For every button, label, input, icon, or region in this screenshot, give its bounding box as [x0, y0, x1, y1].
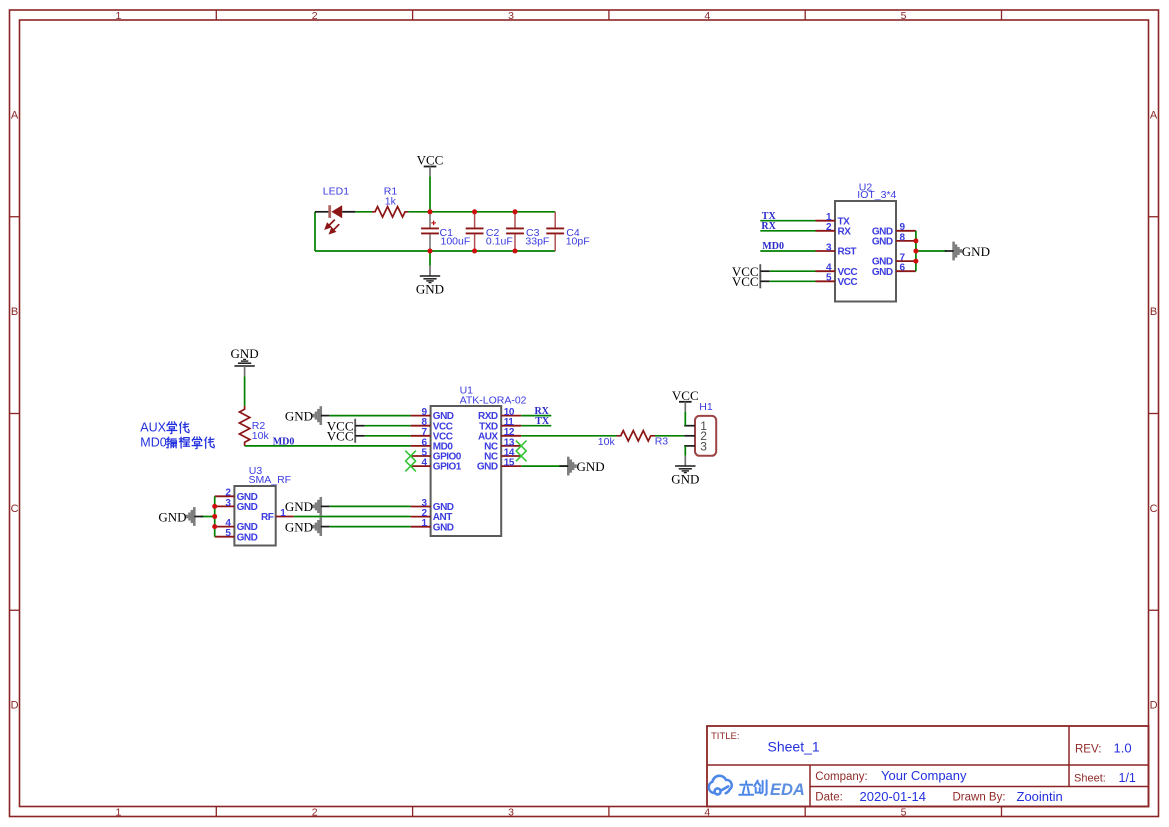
- svg-text:GPIO1: GPIO1: [433, 462, 462, 473]
- wire: U1 pin10 RX stub: [521, 415, 551, 417]
- H1 pin 3: [684, 445, 695, 447]
- ground flag at U1 pin9: [320, 406, 323, 425]
- U1 pin 8 VCC: [411, 425, 431, 427]
- svg-text:2: 2: [312, 10, 318, 22]
- resistor R2: [239, 406, 249, 446]
- wire: to GND flag: [916, 250, 947, 252]
- U3 pin 5 GND: [215, 536, 235, 538]
- svg-text:VCC: VCC: [672, 388, 699, 403]
- svg-text:GND: GND: [285, 408, 313, 423]
- svg-text:AUX: AUX: [140, 421, 166, 435]
- capacitor C1: [429, 212, 431, 228]
- svg-text:ATK-LORA-02: ATK-LORA-02: [460, 394, 527, 406]
- svg-text:B: B: [1150, 306, 1157, 318]
- svg-text:1: 1: [115, 10, 121, 22]
- frame column numbers: [115, 10, 906, 818]
- U2 pin 9 GND: [896, 230, 916, 232]
- U2 pin 6 GND: [896, 270, 916, 272]
- svg-text:C: C: [11, 503, 19, 515]
- ground above R2: [234, 365, 254, 367]
- U2 pin 1 TX: [816, 220, 836, 222]
- svg-text:Your Company: Your Company: [881, 768, 967, 783]
- ground flag right of U2: [952, 242, 955, 261]
- svg-text:5: 5: [901, 10, 907, 22]
- svg-text:GND: GND: [416, 282, 444, 297]
- ground flag at U1 pin15: [567, 457, 570, 476]
- connector U3 body: [234, 486, 275, 546]
- U1 pin 3 GND: [411, 506, 431, 508]
- junction dots U3 bus: [212, 504, 217, 509]
- svg-text:5: 5: [901, 806, 907, 818]
- wire: H1 pin3 to GND: [684, 446, 686, 456]
- capacitor C4: [554, 212, 556, 228]
- junction dots top net: [428, 209, 433, 214]
- svg-text:VCC: VCC: [327, 429, 354, 444]
- wire: U1 pin15 to GND: [521, 465, 568, 467]
- svg-text:GND: GND: [433, 522, 454, 533]
- svg-text:IOT_3*4: IOT_3*4: [857, 189, 896, 201]
- svg-text:GND: GND: [237, 532, 258, 543]
- U1 pin 4 GPIO1: [411, 465, 431, 467]
- ground below H1: [675, 465, 695, 467]
- wire: bus to GND flag: [201, 516, 215, 518]
- U2 pin 7 GND: [896, 260, 916, 262]
- wire: AUX net U1 pin12 to R3: [521, 435, 616, 437]
- svg-text:SMA_RF: SMA_RF: [249, 474, 292, 486]
- U2 pin 5 VCC: [816, 280, 836, 282]
- svg-text:Zoointin: Zoointin: [1017, 789, 1063, 804]
- C1 polarity plus: [431, 222, 436, 224]
- svg-text:GND: GND: [577, 459, 605, 474]
- svg-text:10k: 10k: [252, 430, 270, 442]
- no-connect cross U1 pin5: [405, 451, 416, 462]
- U1 pin 14 NC: [501, 455, 521, 457]
- svg-text:EDA: EDA: [770, 781, 805, 799]
- svg-text:H1: H1: [699, 401, 713, 413]
- U2 pin 3 RST: [816, 250, 836, 252]
- power VCC U1 pin8: [354, 419, 356, 433]
- connector U2 body: [835, 201, 896, 302]
- U1 pin 9 GND: [411, 415, 431, 417]
- svg-text:MD0: MD0: [140, 436, 166, 450]
- wire: pin9 to GND: [330, 415, 411, 417]
- wire: U3 left GND bus: [214, 496, 216, 536]
- svg-text:2: 2: [312, 806, 318, 818]
- svg-text:GND: GND: [671, 472, 699, 487]
- svg-text:VCC: VCC: [838, 277, 858, 288]
- svg-text:MD0: MD0: [273, 437, 295, 448]
- capacitor C3: [514, 212, 516, 228]
- power VCC U1 pin7: [354, 429, 356, 443]
- svg-text:1: 1: [115, 806, 121, 818]
- wire: U1 pin11 TX stub: [521, 425, 551, 427]
- U1 pin 12 AUX: [501, 435, 521, 437]
- svg-text:15: 15: [504, 458, 515, 469]
- power VCC U2 pin5: [759, 274, 761, 288]
- svg-text:D: D: [1150, 700, 1158, 712]
- wire: RF to U1 ANT: [294, 516, 411, 518]
- U1 pin 10 RXD: [501, 415, 521, 417]
- H1 pin 2: [684, 435, 695, 437]
- svg-text:RF: RF: [261, 512, 274, 523]
- frame row letters: [11, 109, 1158, 711]
- U3 pin 1 RF: [276, 516, 294, 518]
- no-connect cross U1 pin13: [516, 441, 527, 452]
- svg-text:A: A: [11, 109, 19, 121]
- svg-text:3: 3: [508, 10, 514, 22]
- ground flag at U1 pin3: [320, 497, 323, 516]
- LED LED1: [315, 211, 330, 213]
- svg-text:GND: GND: [285, 519, 313, 534]
- svg-text:1/1: 1/1: [1119, 771, 1136, 785]
- svg-text:VCC: VCC: [732, 274, 759, 289]
- wire: VCC to H1 pin1: [684, 412, 686, 426]
- LCEDA logo li glyph: [739, 781, 753, 795]
- svg-text:TITLE:: TITLE:: [711, 731, 740, 742]
- svg-text:Sheet_1: Sheet_1: [768, 739, 820, 755]
- no-connect cross U1 pin4: [405, 461, 416, 472]
- wire: R2 top stub: [244, 366, 246, 376]
- svg-text:10pF: 10pF: [566, 236, 590, 248]
- title block grid: [707, 726, 1149, 807]
- junction dots bottom net: [428, 249, 433, 254]
- ground flag left of U3: [193, 507, 196, 526]
- net label MD0: [760, 250, 815, 252]
- wire: top net from LED to C4: [355, 211, 372, 213]
- U2 pin 2 RX: [816, 230, 836, 232]
- capacitor C2: [474, 212, 476, 228]
- svg-text:C: C: [1150, 503, 1158, 515]
- svg-text:GND: GND: [872, 237, 893, 248]
- svg-text:GND: GND: [872, 267, 893, 278]
- wire: to U1 pin1: [330, 526, 411, 528]
- wire: GND stub: [429, 251, 431, 266]
- U3 pin 4 GND: [215, 526, 235, 528]
- ground below C1: [420, 275, 440, 277]
- wire: U2 right GND bus: [915, 231, 917, 271]
- svg-text:Sheet:: Sheet:: [1074, 773, 1106, 785]
- wire: VCC stub down: [429, 176, 431, 212]
- net label TX: [760, 220, 815, 222]
- U1 pin 2 ANT: [411, 516, 431, 518]
- LCEDA logo chuang glyph: [754, 780, 766, 794]
- svg-text:Company:: Company:: [815, 771, 867, 783]
- resistor R1: [372, 207, 408, 217]
- svg-text:RX: RX: [761, 221, 776, 232]
- svg-text:GND: GND: [285, 499, 313, 514]
- svg-text:0.1uF: 0.1uF: [486, 236, 513, 248]
- svg-text:100uF: 100uF: [441, 236, 471, 248]
- svg-text:RST: RST: [838, 247, 857, 258]
- resistor R3: [617, 431, 656, 441]
- wire: bottom return net: [315, 250, 555, 252]
- svg-text:GND: GND: [237, 502, 258, 513]
- junction dots U2 bus: [913, 238, 918, 243]
- svg-text:LED1: LED1: [323, 185, 349, 197]
- U1 pin 11 TXD: [501, 425, 521, 427]
- svg-text:3: 3: [508, 806, 514, 818]
- wire: left vertical: [314, 212, 316, 251]
- svg-text:GND: GND: [158, 509, 186, 524]
- svg-text:10k: 10k: [598, 436, 616, 448]
- LCEDA logo cloud icon: [709, 776, 732, 795]
- module U1 body: [431, 406, 502, 536]
- svg-text:REV:: REV:: [1075, 743, 1101, 755]
- svg-text:TX: TX: [535, 416, 550, 427]
- svg-text:RX: RX: [838, 226, 852, 237]
- U2 pin 4 VCC: [816, 270, 836, 272]
- U1 pin 6 MD0: [411, 445, 431, 447]
- svg-text:MD0: MD0: [762, 241, 784, 252]
- svg-text:GND: GND: [962, 244, 990, 259]
- svg-text:GND: GND: [477, 462, 498, 473]
- ground flag at U1 pin1: [320, 517, 323, 536]
- svg-text:33pF: 33pF: [525, 236, 549, 248]
- U1 pin 1 GND: [411, 526, 431, 528]
- svg-text:Drawn By:: Drawn By:: [953, 792, 1006, 804]
- U1 pin 15 GND: [501, 465, 521, 467]
- U3 pin 3 GND: [215, 505, 235, 507]
- svg-text:R3: R3: [655, 436, 669, 448]
- wire: R3 to H1 pin2: [655, 435, 684, 437]
- U1 pin 7 VCC: [411, 435, 431, 437]
- U1 pin 5 GPIO0: [411, 455, 431, 457]
- H1 pin 1: [684, 425, 695, 427]
- wire: to U1 pin3: [330, 505, 411, 507]
- power VCC top: [424, 166, 437, 168]
- svg-text:1k: 1k: [385, 195, 397, 207]
- power VCC above H1: [679, 401, 692, 403]
- power VCC U2 pin4: [759, 264, 761, 278]
- U2 pin 8 GND: [896, 240, 916, 242]
- svg-text:3: 3: [700, 439, 707, 453]
- no-connect cross U1 pin14: [516, 451, 527, 462]
- wire: MD0 net R2 to U1 pin6: [245, 445, 411, 447]
- svg-text:A: A: [1150, 109, 1158, 121]
- svg-text:VCC: VCC: [417, 153, 444, 168]
- svg-text:B: B: [11, 306, 18, 318]
- svg-text:D: D: [11, 700, 19, 712]
- net label RX: [760, 230, 815, 232]
- svg-text:4: 4: [704, 10, 710, 22]
- U1 pin 13 NC: [501, 445, 521, 447]
- svg-text:4: 4: [704, 806, 710, 818]
- svg-text:GND: GND: [231, 346, 259, 361]
- svg-text:1.0: 1.0: [1114, 741, 1132, 756]
- connector H1 body: [695, 416, 716, 456]
- svg-text:Date:: Date:: [815, 792, 843, 804]
- svg-text:2020-01-14: 2020-01-14: [860, 789, 927, 804]
- U3 pin 2 GND: [215, 495, 235, 497]
